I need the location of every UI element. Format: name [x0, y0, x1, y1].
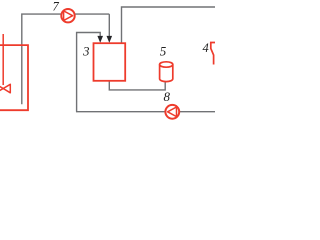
arrowhead into vessel 3 (left) [97, 36, 103, 43]
svg-text:3: 3 [82, 43, 90, 58]
stirrer impeller (bowtie) [0, 84, 10, 93]
wire: recycle riser and header into vessel 3 [77, 33, 101, 112]
arrowhead into vessel 3 (right) [107, 36, 113, 43]
wire: dip tube from tank 1 up and right to pump 7 [21, 14, 109, 104]
collector 5 (cylinder) [160, 62, 173, 82]
condenser 4 (cut off at right edge) [211, 43, 215, 65]
pump 7 [61, 9, 74, 22]
wire: pump 7 discharge down into vessel 3 [108, 14, 110, 38]
pump 8 [165, 105, 179, 119]
svg-text:5: 5 [160, 44, 167, 59]
wire: vessel 3 bottom outlet to collector 5 [109, 81, 165, 90]
vessel 3 [94, 43, 126, 81]
wire: bottom return line through pump 8 [76, 111, 215, 113]
wire: vapor line from vessel 3 top to right edge (to 4) [122, 7, 216, 43]
svg-text:4: 4 [203, 41, 209, 55]
svg-text:8: 8 [164, 89, 171, 104]
tank 1 (stirred tank, cut off at left edge) [0, 45, 28, 110]
svg-text:7: 7 [53, 0, 60, 13]
stirrer shaft [2, 34, 4, 85]
